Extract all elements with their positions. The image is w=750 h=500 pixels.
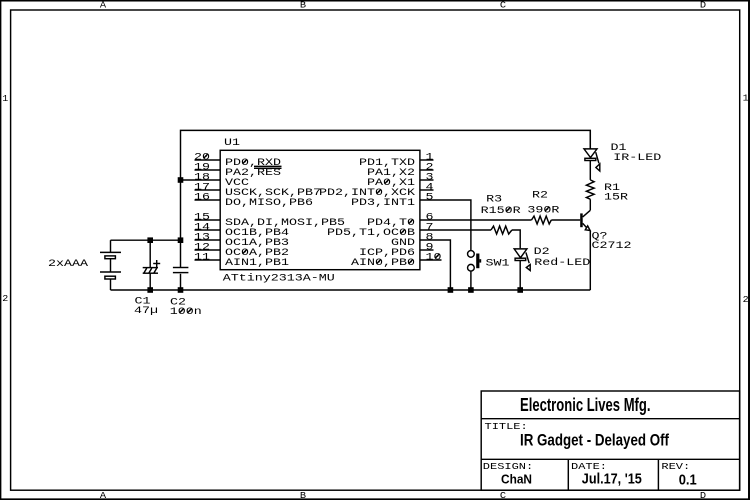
U1 pin 20 label PD0,RXD xyxy=(225,158,281,169)
wire R3 to D2 anode xyxy=(512,230,520,248)
junction GND wire xyxy=(448,287,454,293)
svg-text:2: 2 xyxy=(2,294,8,304)
junction VCC/pin18 xyxy=(178,177,184,183)
svg-text:11: 11 xyxy=(194,253,210,264)
svg-text:AIN0,PB0: AIN0,PB0 xyxy=(351,258,415,269)
svg-text:ChaN: ChaN xyxy=(501,472,532,487)
svg-text:C: C xyxy=(500,491,507,500)
U1 pin 12 stub xyxy=(194,243,220,254)
RES overline xyxy=(254,167,282,169)
R2 value label 390R xyxy=(527,205,559,216)
diode D2 Red-LED xyxy=(514,249,530,290)
U1 pin 13 stub xyxy=(194,233,220,244)
svg-text:390R: 390R xyxy=(527,205,559,216)
svg-text:2xAAA: 2xAAA xyxy=(48,259,88,270)
junction C2 bottom xyxy=(178,287,184,293)
U1 pin 19 stub xyxy=(194,163,220,174)
R3 value label R150R xyxy=(481,206,521,217)
resistor R1 xyxy=(586,180,594,199)
title block divider design/date xyxy=(567,459,569,490)
svg-text:C: C xyxy=(500,1,507,11)
junction C1 top xyxy=(147,237,153,243)
title block border xyxy=(481,391,739,490)
U1 pin 11 stub xyxy=(194,253,220,264)
RXD underline xyxy=(254,165,282,167)
U1 pin 4 label PD2,INT0,XCK xyxy=(319,188,415,199)
svg-text:C2712: C2712 xyxy=(592,241,632,252)
svg-text:DO,MISO,PB6: DO,MISO,PB6 xyxy=(225,198,313,209)
svg-text:100n: 100n xyxy=(170,307,202,318)
svg-text:AIN1,PB1: AIN1,PB1 xyxy=(225,258,289,269)
svg-text:U1: U1 xyxy=(224,138,240,149)
svg-text:47µ: 47µ xyxy=(134,306,158,317)
svg-text:R2: R2 xyxy=(532,190,548,201)
svg-text:1: 1 xyxy=(2,94,8,104)
U1 pin 17 stub xyxy=(194,183,220,194)
junction SW1 bottom xyxy=(468,287,474,293)
wire R2 to Q base xyxy=(551,219,580,221)
svg-text:Electronic Lives Mfg.: Electronic Lives Mfg. xyxy=(520,395,651,415)
U1 pin 14 stub xyxy=(194,223,220,234)
svg-text:IR-LED: IR-LED xyxy=(613,153,661,164)
wire R1 to Q collector xyxy=(589,199,591,210)
U1 pin 7 stub xyxy=(426,223,434,234)
U1 pin 4 stub xyxy=(420,183,434,194)
U1 pin 16 stub xyxy=(194,193,220,204)
svg-text:R3: R3 xyxy=(486,194,502,205)
svg-text:B: B xyxy=(300,1,307,11)
resistor R3 xyxy=(491,226,512,234)
svg-text:REV:: REV: xyxy=(661,461,690,472)
U1 pin 2 stub xyxy=(420,163,434,174)
wire U1 pin 7 to R3 xyxy=(420,229,491,231)
svg-text:D: D xyxy=(700,491,706,500)
U1 pin 20 stub xyxy=(194,153,220,164)
title block divider under title xyxy=(481,458,740,460)
U1 pin 10 label AIN0,PB0 xyxy=(351,258,415,269)
junction C1 bottom xyxy=(147,287,153,293)
svg-text:15R: 15R xyxy=(604,193,628,204)
U1 pin 3 label PA0,X1 xyxy=(367,178,415,189)
svg-text:1: 1 xyxy=(743,94,749,104)
wire U1 pin 8 GND to ground rail xyxy=(420,240,450,290)
svg-text:R150R: R150R xyxy=(481,206,521,217)
svg-text:2: 2 xyxy=(743,295,749,305)
U1 pin 15 stub xyxy=(194,213,220,224)
battery 2xAAA xyxy=(100,240,121,290)
capacitor C1 electrolytic xyxy=(143,240,161,290)
U1 pin 9 stub xyxy=(420,243,434,254)
U1 pin 18 stub xyxy=(181,173,220,184)
svg-text:D2: D2 xyxy=(534,247,550,258)
svg-text:D: D xyxy=(700,1,706,11)
svg-text:0.1: 0.1 xyxy=(679,471,697,488)
U1 pin 8 stub xyxy=(426,233,434,244)
IC U1 box xyxy=(220,150,420,269)
svg-text:A: A xyxy=(100,1,107,11)
svg-text:Red-LED: Red-LED xyxy=(534,257,590,269)
U1 pin 10 stub xyxy=(420,253,442,264)
switch SW1 xyxy=(468,251,482,290)
junction C2 top xyxy=(178,237,184,243)
U1 pin 5 stub xyxy=(426,193,434,204)
U1 pin 12 label OC0A,PB2 xyxy=(225,248,289,259)
U1 pin 3 stub xyxy=(420,173,434,184)
C2 value label 100n xyxy=(170,307,202,318)
svg-text:Jul.17, '15: Jul.17, '15 xyxy=(582,471,642,488)
U1 pin 6 label PD4,T0 xyxy=(367,218,415,229)
svg-text:DESIGN:: DESIGN: xyxy=(483,461,533,472)
svg-text:ATtiny2313A-MU: ATtiny2313A-MU xyxy=(223,272,335,284)
junction D2 cathode xyxy=(517,287,523,293)
svg-text:A: A xyxy=(100,491,107,500)
U1 pin 6 stub xyxy=(426,213,434,224)
wire VCC net (battery top to U1 area and D1 anode) xyxy=(111,130,591,240)
title block divider under company xyxy=(481,418,740,420)
U1 pin 7 label PD5,T1,OC0B xyxy=(327,228,415,239)
diode D1 IR-LED xyxy=(584,130,600,180)
svg-text:B: B xyxy=(300,491,307,500)
wire U1 pin 5 to SW1 xyxy=(420,200,471,250)
svg-text:IR Gadget - Delayed Off: IR Gadget - Delayed Off xyxy=(520,431,669,449)
resistor R2 xyxy=(532,216,552,224)
capacitor C2 xyxy=(173,240,189,290)
U1 pin 1 stub xyxy=(420,153,434,164)
svg-text:PD3,INT1: PD3,INT1 xyxy=(351,198,415,209)
svg-text:16: 16 xyxy=(194,193,210,204)
svg-text:SW1: SW1 xyxy=(486,259,510,270)
wire ground rail xyxy=(111,289,591,291)
wire U1 pin 6 to R2 xyxy=(420,219,531,221)
transistor Q? C2712 xyxy=(580,210,590,290)
svg-text:TITLE:: TITLE: xyxy=(485,421,528,432)
title block divider date/rev xyxy=(657,459,659,490)
svg-text:5: 5 xyxy=(426,193,434,204)
